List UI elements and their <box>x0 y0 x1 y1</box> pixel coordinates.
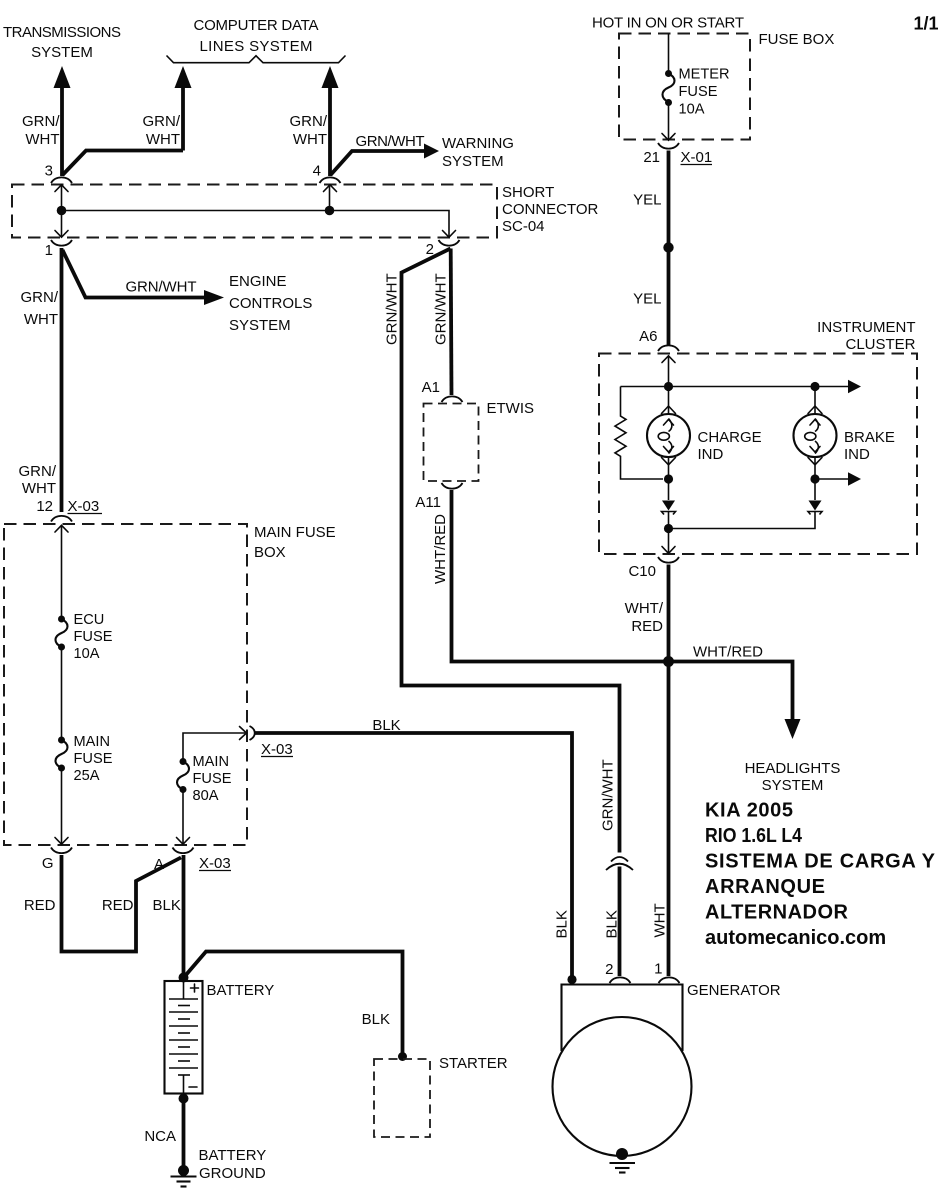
ground generator ground G2 <box>610 1148 636 1173</box>
wire label GRN/WHT (warning wire) <box>356 133 425 150</box>
ground battery ground G1 <box>171 1165 197 1187</box>
svg-text:4: 4 <box>313 163 321 180</box>
svg-text:GRN/: GRN/ <box>290 113 328 130</box>
svg-text:SYSTEM: SYSTEM <box>229 317 291 334</box>
svg-text:C10: C10 <box>628 563 656 580</box>
fuse MAIN 80A label <box>193 754 232 804</box>
diode D1 <box>662 501 676 515</box>
pin G label <box>42 855 54 872</box>
pin 3 connector <box>51 177 72 191</box>
svg-text:12: 12 <box>36 498 53 515</box>
svg-text:WHT/RED: WHT/RED <box>432 514 449 584</box>
svg-text:GRN/WHT: GRN/WHT <box>600 759 617 831</box>
svg-text:2: 2 <box>605 961 613 978</box>
junction below charge lamp <box>664 474 673 483</box>
junction at pin4 column <box>325 206 335 216</box>
node HOT IN ON OR START label <box>592 15 744 32</box>
svg-text:WHT/RED: WHT/RED <box>693 644 763 661</box>
fuse METER label <box>679 67 730 118</box>
generator body circle <box>553 1017 692 1156</box>
svg-text:X-01: X-01 <box>681 149 713 166</box>
pin G connector <box>51 838 72 854</box>
fuse MAIN FUSE 25A <box>56 737 68 772</box>
svg-text:GENERATOR: GENERATOR <box>687 982 781 999</box>
svg-text:WHT: WHT <box>24 311 58 328</box>
pin 21 label <box>643 149 660 166</box>
svg-text:1: 1 <box>654 961 662 978</box>
wire BLK below break to generator pin 2 <box>618 867 622 977</box>
fuse MAIN 25A label <box>74 734 113 784</box>
wire inside main fuse box pin12 to ECU fuse <box>61 526 63 619</box>
svg-text:HOT IN ON OR START: HOT IN ON OR START <box>592 15 744 32</box>
wire YEL pin 21 to A6 <box>667 151 671 346</box>
junction WHT/RED splice <box>663 656 674 667</box>
pin 4 connector <box>320 177 341 191</box>
wire label BLK (fuse box output) <box>372 717 400 734</box>
diode D2 <box>808 501 822 515</box>
svg-text:FUSE: FUSE <box>74 629 113 645</box>
wire brake lamp to diode D2 <box>814 457 816 500</box>
wire label GRN/WHT (transmissions wire) <box>22 113 60 148</box>
node ENGINE CONTROLS SYSTEM label <box>229 273 312 334</box>
wire label WHT/RED (headlights wire) <box>693 644 763 661</box>
svg-text:X-03: X-03 <box>261 741 293 758</box>
wire inside SC-04 pin4 down <box>329 185 331 211</box>
node COMPUTER DATA LINES SYSTEM label <box>194 17 319 55</box>
svg-text:GRN/WHT: GRN/WHT <box>356 133 425 150</box>
svg-text:ECU: ECU <box>74 612 105 628</box>
svg-text:BLK: BLK <box>153 897 181 914</box>
svg-text:WARNING: WARNING <box>442 135 514 152</box>
svg-text:BATTERY: BATTERY <box>207 982 275 999</box>
generator label <box>687 982 781 999</box>
pin 2 label <box>426 241 434 258</box>
svg-text:SC-04: SC-04 <box>502 218 545 235</box>
svg-text:1/1: 1/1 <box>913 14 938 34</box>
junction at battery positive <box>179 973 189 983</box>
wire label WHT/RED (below C10) <box>625 600 664 635</box>
svg-text:X-03: X-03 <box>199 855 231 872</box>
svg-text:A6: A6 <box>639 328 657 345</box>
arrow to transmissions system <box>54 66 71 176</box>
svg-text:MAIN: MAIN <box>193 754 229 770</box>
generator pin 1 connector <box>659 977 680 983</box>
generator pin 2 connector <box>610 977 631 983</box>
pin 21 connector <box>658 134 679 149</box>
svg-text:SYSTEM: SYSTEM <box>31 44 93 61</box>
svg-text:BLK: BLK <box>604 910 621 938</box>
junction bottom rail <box>664 524 673 533</box>
pin A6 label <box>639 328 657 345</box>
svg-text:A1: A1 <box>422 379 440 396</box>
short connector SC-04 label <box>502 184 599 235</box>
svg-text:GRN/WHT: GRN/WHT <box>126 279 197 296</box>
svg-text:ARRANQUE: ARRANQUE <box>705 876 825 898</box>
fuse ECU FUSE 10A <box>56 616 68 651</box>
svg-text:YEL: YEL <box>633 291 661 308</box>
instrument cluster label <box>817 319 915 353</box>
page number 1/1 <box>913 14 938 34</box>
svg-text:WHT: WHT <box>25 131 59 148</box>
svg-text:X-03: X-03 <box>68 498 100 515</box>
main fuse box label <box>254 524 336 561</box>
svg-text:CONNECTOR: CONNECTOR <box>502 201 599 218</box>
wire label GRN/WHT (rotated, ETWIS wire) <box>433 273 450 345</box>
svg-text:STARTER: STARTER <box>439 1055 508 1072</box>
wire label GRN/WHT (rotated, lower) <box>600 759 617 831</box>
pin A1 connector <box>442 396 463 402</box>
svg-text:MAIN FUSE: MAIN FUSE <box>254 524 336 541</box>
svg-text:1: 1 <box>45 242 53 259</box>
wire inside SC-04 horizontal bus <box>62 211 450 238</box>
svg-text:25A: 25A <box>74 768 100 784</box>
wire label BLK (rotated, generator pin 2) <box>604 910 621 938</box>
ETWIS label <box>487 400 535 417</box>
resistor R1 <box>615 387 663 480</box>
svg-text:RIO 1.6L L4: RIO 1.6L L4 <box>705 825 803 847</box>
wire label GRN/WHT (computer data right) <box>290 113 328 148</box>
brace over computer data lines arrows <box>167 56 346 63</box>
lamp BRAKE IND label <box>844 429 895 463</box>
starter box <box>374 1059 430 1137</box>
pin 4 label <box>313 163 321 180</box>
wire pin4 to warning system <box>331 144 440 176</box>
svg-text:CHARGE: CHARGE <box>698 429 762 446</box>
svg-text:WHT: WHT <box>22 480 56 497</box>
connector X-03 label at pins G/A <box>199 855 231 872</box>
wire meter fuse to pin 21 <box>668 103 670 141</box>
wire break symbol on GRN/WHT wire <box>606 857 633 870</box>
svg-text:IND: IND <box>844 446 870 463</box>
pin 12 label <box>36 498 53 515</box>
generator pin 2 label <box>605 961 613 978</box>
connector X-01 label at pin 12 <box>68 498 103 515</box>
connector X-01 label <box>681 149 713 166</box>
svg-text:GRN/: GRN/ <box>19 463 57 480</box>
pin 1 label <box>45 242 53 259</box>
wire label BLK (rotated, generator case wire) <box>554 910 571 938</box>
junction BLK at generator case <box>567 975 576 984</box>
svg-text:ETWIS: ETWIS <box>487 400 535 417</box>
lamp BRAKE IND <box>794 406 837 465</box>
svg-text:SYSTEM: SYSTEM <box>762 777 824 794</box>
pin A6 connector <box>658 345 679 362</box>
svg-text:10A: 10A <box>74 646 100 662</box>
wire label GRN/WHT (left column lower) <box>19 463 57 497</box>
svg-text:80A: 80A <box>193 788 219 804</box>
wire A6 to charge lamp <box>668 356 670 414</box>
wire label YEL (lower) <box>633 291 661 308</box>
battery ground label <box>199 1147 267 1182</box>
wire label RED (left) <box>24 897 56 914</box>
pin C10 label <box>628 563 656 580</box>
wire label RED (right) <box>102 897 134 914</box>
svg-text:WHT: WHT <box>293 131 327 148</box>
svg-text:INSTRUMENT: INSTRUMENT <box>817 319 915 336</box>
wire GRN/WHT pin2 to ETWIS A1 <box>449 249 454 396</box>
svg-text:FUSE: FUSE <box>193 771 232 787</box>
generator G1 case <box>562 985 683 1052</box>
svg-text:3: 3 <box>45 163 53 180</box>
wire label GRN/WHT (rotated, branch wire) <box>384 273 401 345</box>
svg-text:ENGINE: ENGINE <box>229 273 287 290</box>
pin C10 connector <box>658 547 679 563</box>
svg-text:FUSE BOX: FUSE BOX <box>759 31 835 48</box>
svg-text:GROUND: GROUND <box>199 1165 266 1182</box>
wire label WHT (generator pin 1 wire) <box>652 903 669 937</box>
svg-text:RED: RED <box>631 618 663 635</box>
lamp CHARGE IND <box>647 406 690 465</box>
connector X-03 right side output <box>240 726 255 740</box>
wire diode D2 to bottom rail <box>669 511 816 529</box>
svg-text:10A: 10A <box>679 102 705 118</box>
wire WHT/RED C10 down to junction and WHT to generator pin 1 <box>667 565 671 977</box>
wire pin1 branch to engine controls <box>63 250 225 305</box>
wire MAIN fuse 80A to pin A <box>182 790 184 845</box>
fuse box label <box>759 31 835 48</box>
node WARNING SYSTEM label <box>442 135 514 170</box>
junction below A6 <box>664 382 673 391</box>
pin A11 connector <box>442 483 463 489</box>
node HEADLIGHTS SYSTEM label <box>745 760 841 794</box>
battery BT1 <box>165 981 203 1094</box>
wire NCA battery negative to ground <box>182 1099 186 1168</box>
KIA title text block <box>705 800 936 950</box>
wire pin1 down to pin12 (GRN/WHT) <box>60 248 64 512</box>
svg-text:GRN/WHT: GRN/WHT <box>433 273 450 345</box>
junction at pin3 column <box>57 206 67 216</box>
svg-text:CLUSTER: CLUSTER <box>845 336 915 353</box>
wire label WHT/RED (rotated) <box>432 514 449 584</box>
wire into meter fuse <box>668 34 670 74</box>
pin 3 label <box>45 163 53 180</box>
svg-text:SISTEMA DE CARGA Y: SISTEMA DE CARGA Y <box>705 851 936 873</box>
starter label <box>439 1055 508 1072</box>
pin A connector <box>173 838 194 854</box>
wire battery positive to starter <box>185 952 403 1055</box>
svg-text:COMPUTER DATA: COMPUTER DATA <box>194 17 319 34</box>
ETWIS box <box>424 404 479 482</box>
junction at starter <box>398 1052 407 1061</box>
lamp CHARGE IND label <box>698 429 762 463</box>
wire label NCA <box>144 1128 176 1145</box>
svg-text:RED: RED <box>24 897 56 914</box>
junction below brake lamp <box>810 474 819 483</box>
wire branch to MAIN fuse 80A and X-03 output <box>183 733 245 761</box>
wire MAIN fuse 25A to pin G <box>61 768 63 844</box>
svg-text:BRAKE: BRAKE <box>844 429 895 446</box>
short connector SC-04 box <box>12 185 497 238</box>
wire label YEL (upper) <box>633 192 661 209</box>
wire label BLK (starter wire) <box>362 1011 390 1028</box>
svg-text:BLK: BLK <box>554 910 571 938</box>
svg-text:GRN/WHT: GRN/WHT <box>384 273 401 345</box>
pin 12 connector <box>51 516 72 532</box>
wire charge lamp to diode <box>668 457 670 500</box>
svg-text:BOX: BOX <box>254 544 286 561</box>
wire pin4 to computer data lines (right arrow) <box>322 66 339 176</box>
svg-text:GRN/: GRN/ <box>143 113 181 130</box>
svg-text:RED: RED <box>102 897 134 914</box>
svg-text:WHT/: WHT/ <box>625 600 664 617</box>
wire WHT/RED to headlights system <box>669 662 801 740</box>
svg-text:ALTERNADOR: ALTERNADOR <box>705 902 849 924</box>
fuse ECU label <box>74 612 113 662</box>
svg-text:G: G <box>42 855 54 872</box>
svg-text:MAIN: MAIN <box>74 734 110 750</box>
wire WHT/RED ETWIS A11 to splice <box>452 490 667 662</box>
connector X-03 output label <box>261 741 293 758</box>
svg-text:SYSTEM: SYSTEM <box>442 153 504 170</box>
svg-text:METER: METER <box>679 67 730 83</box>
wire label GRN/WHT (computer data left) <box>143 113 181 148</box>
fuse box (X-01) <box>619 34 750 140</box>
svg-text:WHT: WHT <box>146 131 180 148</box>
wire diode D1 to bottom rail <box>668 511 670 529</box>
pin 2 connector <box>439 231 460 246</box>
wire brake output arrow <box>815 472 861 485</box>
battery label <box>207 982 275 999</box>
pin A11 label <box>415 494 441 511</box>
wire GRN/WHT pin2 SC-04 down-left branch <box>402 249 620 853</box>
generator pin 1 label <box>654 961 662 978</box>
fuse MAIN FUSE 80A <box>177 758 189 793</box>
svg-text:A11: A11 <box>415 494 441 511</box>
svg-text:GRN/: GRN/ <box>22 113 60 130</box>
wire label GRN/WHT (engine controls wire) <box>126 279 197 296</box>
wire ECU fuse to MAIN fuse 25A <box>61 647 63 740</box>
pin A label <box>154 856 164 873</box>
splice junction on YEL wire <box>663 242 673 252</box>
wire brake lamp branch <box>814 387 816 415</box>
svg-text:LINES SYSTEM: LINES SYSTEM <box>200 38 313 55</box>
svg-text:HEADLIGHTS: HEADLIGHTS <box>745 760 841 777</box>
svg-text:IND: IND <box>698 446 724 463</box>
wire RED from pin G to pin A (battery feed) <box>62 855 182 952</box>
svg-text:SHORT: SHORT <box>502 184 554 201</box>
wire BLK pin A to battery <box>182 855 186 977</box>
instrument cluster box <box>599 354 917 555</box>
pin A1 label <box>422 379 440 396</box>
wire BLK from X-03 to generator case <box>254 733 572 977</box>
svg-text:KIA 2005: KIA 2005 <box>705 800 793 822</box>
wire label BLK (battery wire) <box>153 897 181 914</box>
wire pin3 to computer data lines (left arrow) <box>63 66 192 175</box>
main fuse box <box>4 524 247 845</box>
svg-text:NCA: NCA <box>144 1128 176 1145</box>
wire label GRN/WHT (left column upper) <box>21 289 59 328</box>
junction top rail at brake lamp <box>810 382 819 391</box>
svg-text:FUSE: FUSE <box>74 751 113 767</box>
wire bottom rail to C10 <box>668 529 670 554</box>
svg-text:GRN/: GRN/ <box>21 289 59 306</box>
svg-text:TRANSMISSIONS: TRANSMISSIONS <box>3 24 121 41</box>
svg-text:FUSE: FUSE <box>679 84 718 100</box>
svg-text:BATTERY: BATTERY <box>199 1147 267 1164</box>
junction at battery negative <box>179 1094 189 1104</box>
wire cluster top rail <box>621 380 862 393</box>
node TRANSMISSIONS SYSTEM label <box>3 24 121 61</box>
wire inside SC-04 pin3 to pin1 <box>61 185 63 237</box>
pin 1 connector <box>51 231 72 246</box>
svg-text:WHT: WHT <box>652 903 669 937</box>
svg-text:BLK: BLK <box>372 717 400 734</box>
svg-text:automecanico.com: automecanico.com <box>705 927 886 949</box>
svg-text:BLK: BLK <box>362 1011 390 1028</box>
fuse METER FUSE 10A <box>663 70 675 106</box>
svg-text:CONTROLS: CONTROLS <box>229 295 312 312</box>
svg-text:21: 21 <box>643 149 660 166</box>
svg-text:YEL: YEL <box>633 192 661 209</box>
